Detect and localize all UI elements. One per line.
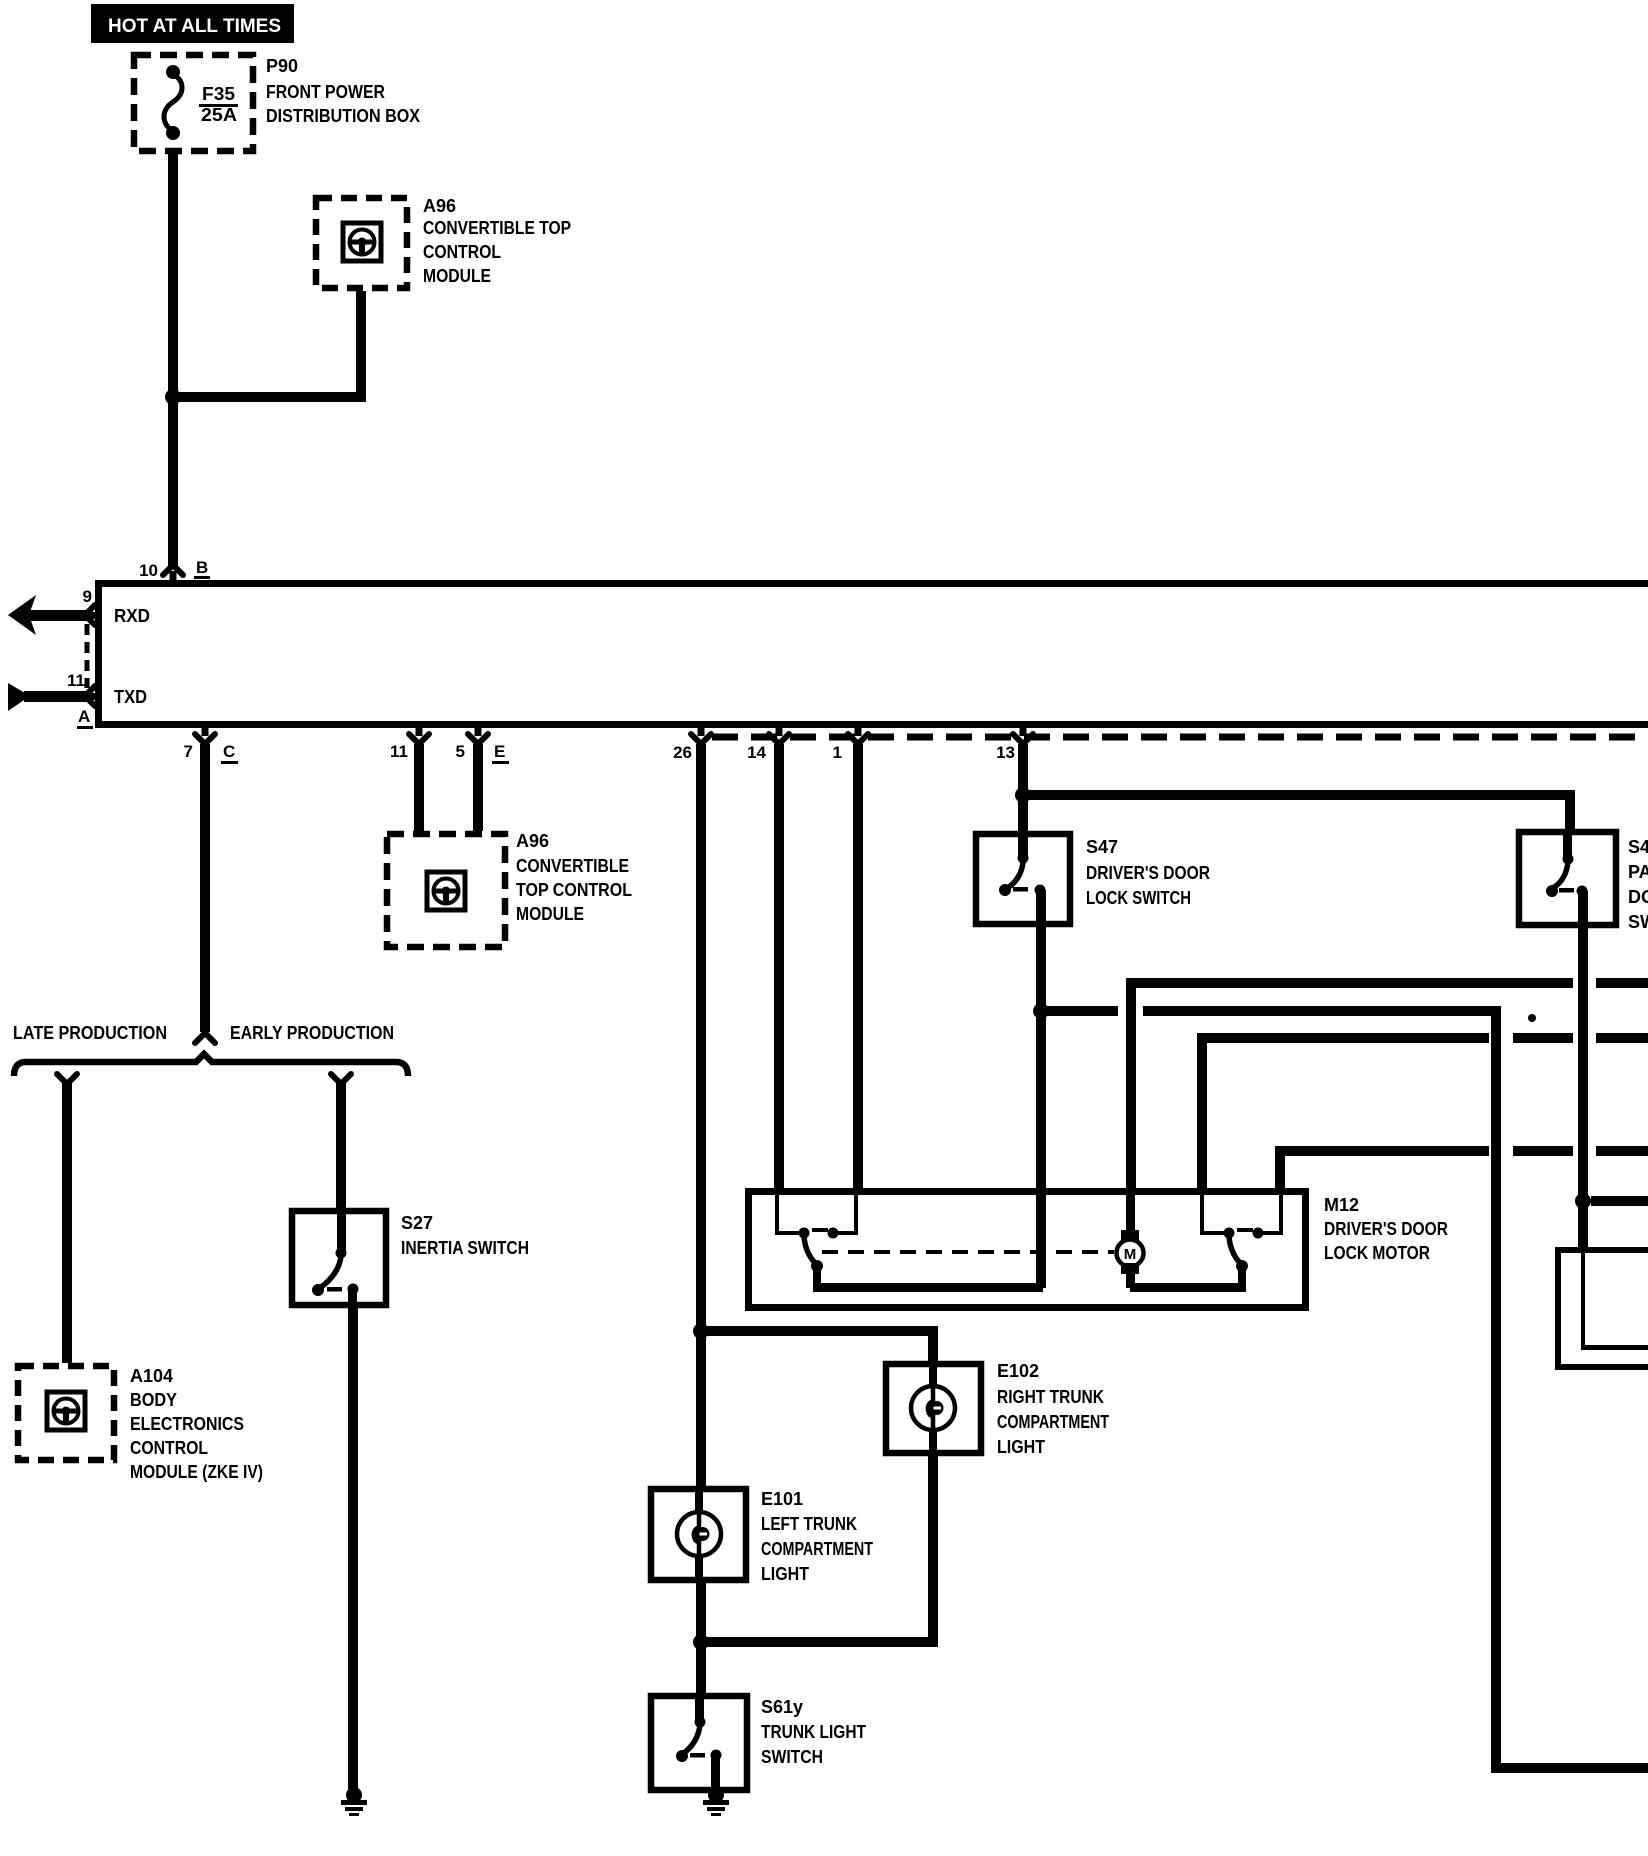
pin 10 [139,561,183,580]
wire junction to E101 [696,1331,706,1488]
label M12 DRIVER'S DOOR LOCK MOTOR [1324,1195,1448,1263]
fuse F35 25A [164,65,238,140]
svg-text:11: 11 [67,671,85,690]
label S61y TRUNK LIGHT SWITCH [761,1697,866,1767]
wire S61y to ground [711,1755,720,1793]
M12 terminal rect B [1200,1195,1283,1235]
pin 11 (lower) [390,728,429,761]
svg-text:9: 9 [83,587,92,606]
svg-text:RXD: RXD [114,606,150,626]
svg-text:TOP CONTROL: TOP CONTROL [516,880,632,900]
label LATE PRODUCTION [13,1023,167,1043]
lamp E101 left trunk compartment light box [651,1489,746,1580]
M12 left switch [799,1228,1044,1293]
svg-text:DRIVER'S DOOR: DRIVER'S DOOR [1324,1219,1448,1239]
production split brace [14,1054,408,1076]
wire pin 5 to A96 [473,744,483,831]
module A104 body electronics control module (dashed) [18,1366,114,1460]
svg-text:LEFT TRUNK: LEFT TRUNK [761,1514,857,1534]
svg-text:SWITCH: SWITCH [761,1747,823,1767]
label S47 DRIVER'S DOOR LOCK SWITCH [1086,837,1210,908]
svg-text:SWITCH: SWITCH [1628,912,1648,932]
module A96 convertible top control module (dashed, lower) [387,834,505,947]
wire pin 1 to M12 [853,744,863,1191]
icon control module A104 [47,1392,85,1430]
label P90 FRONT POWER DISTRIBUTION BOX [266,56,420,126]
label A96 CONVERTIBLE TOP CONTROL MODULE (lower) [516,831,632,924]
svg-text:E102: E102 [997,1361,1039,1381]
svg-text:MODULE: MODULE [516,904,584,924]
label S48 PASSENGER'S DOOR LOCK SWITCH (cut at edge) [1628,837,1648,932]
pin 9 RXD wire with left arrow [8,587,96,635]
wire long vertical to bottom right [1491,1006,1648,1773]
svg-text:LOCK MOTOR: LOCK MOTOR [1324,1243,1430,1263]
switch S27 inertia switch box [292,1211,386,1305]
wire from right edge into M12 rect B left [1197,1033,1648,1191]
svg-text:A: A [78,707,90,726]
label E101 LEFT TRUNK COMPARTMENT LIGHT [761,1489,873,1584]
switch S48 contacts [1546,829,1588,897]
svg-text:B: B [196,558,208,577]
svg-text:CONVERTIBLE TOP: CONVERTIBLE TOP [423,218,571,238]
wire early production branch to S27 [331,1074,351,1208]
ink speck [1528,1014,1536,1022]
M12 right switch [1130,1228,1264,1293]
svg-text:COMPARTMENT: COMPARTMENT [997,1412,1109,1432]
wire junction to right edge [1591,1196,1648,1206]
svg-text:LOCK SWITCH: LOCK SWITCH [1086,888,1191,908]
wire pin 26 down to junction [696,744,706,1334]
junction fuse wire / A96 branch [165,389,181,405]
label HOT AT ALL TIMES [91,4,294,43]
wire junction to S61y [696,1642,706,1696]
ground below S27 [341,1787,367,1816]
ground below S61y [703,1787,729,1816]
icon lamp E102 [911,1386,955,1430]
wire from right edge into M12 motor [1126,978,1648,1191]
svg-text:DOOR LOCK: DOOR LOCK [1628,887,1648,907]
pin 26 [673,728,711,762]
wire E102 down and left to junction [696,1453,938,1647]
node A [77,707,93,729]
dashed link between pin 9 and pin 11 [85,624,90,688]
icon control module A96 [343,223,381,261]
wire S48 down to M13 [1578,891,1588,1247]
junction E101 / E102 return [693,1634,709,1650]
wire S27 to ground [348,1289,358,1789]
wire branch right with crossover break [1041,1006,1501,1016]
junction pin 26 / E102 branch [693,1323,709,1339]
svg-text:1: 1 [833,743,842,762]
switch S61y trunk light switch box [651,1696,747,1790]
wire branch to A96 convertible top control module [168,291,366,402]
node C [221,742,238,764]
pin 11 TXD wire with right-pointing arrow [8,671,96,711]
svg-text:E101: E101 [761,1489,803,1509]
motor M12 driver's door lock motor box [745,1188,1309,1311]
svg-text:13: 13 [996,743,1015,762]
svg-text:RIGHT TRUNK: RIGHT TRUNK [997,1387,1104,1407]
svg-text:LATE PRODUCTION: LATE PRODUCTION [13,1023,167,1043]
svg-text:PASSENGER'S: PASSENGER'S [1628,862,1648,882]
svg-text:26: 26 [673,743,692,762]
label S27 INERTIA SWITCH [401,1213,529,1258]
svg-text:CONTROL: CONTROL [130,1438,208,1458]
switch S61y contacts [676,1693,722,1762]
svg-text:COMPARTMENT: COMPARTMENT [761,1539,873,1559]
svg-text:A104: A104 [130,1366,173,1386]
wire fuse output down to module pin 10 [168,148,178,567]
svg-text:LIGHT: LIGHT [761,1564,809,1584]
node E [492,742,509,764]
switch S47 driver's door lock switch box [976,834,1070,924]
junction S48 wire / dashed branch [1575,1193,1591,1209]
switch S27 contacts [312,1208,359,1296]
svg-text:TXD: TXD [114,687,147,707]
M12 terminal rect A [775,1195,858,1235]
svg-text:FRONT POWER: FRONT POWER [266,82,385,102]
module general module box (main horizontal band) [95,580,1648,728]
svg-text:MODULE: MODULE [423,266,491,286]
switch S48 passenger's door lock switch box (cut at edge) [1519,832,1616,925]
wire branch to S48 [1023,790,1575,832]
lamp E102 right trunk compartment light box [886,1364,981,1453]
svg-text:M: M [1124,1246,1137,1263]
wire E101 down to junction [696,1578,706,1642]
label A104 BODY ELECTRONICS CONTROL MODULE (ZKE IV) [130,1366,263,1482]
svg-text:F35: F35 [202,84,235,104]
svg-text:CONTROL: CONTROL [423,242,501,262]
wire branch to E102 [696,1326,938,1364]
signal label RXD [114,606,150,626]
svg-text:ELECTRONICS: ELECTRONICS [130,1414,244,1434]
pin 1 [833,728,868,762]
svg-text:A96: A96 [516,831,549,851]
junction S47 wire / lock motor feed branch [1033,1003,1049,1019]
svg-text:S61y: S61y [761,1697,803,1717]
label EARLY PRODUCTION [230,1023,394,1043]
svg-text:MODULE (ZKE IV): MODULE (ZKE IV) [130,1462,263,1482]
label A96 CONVERTIBLE TOP CONTROL MODULE [423,196,571,286]
node B [194,558,210,579]
wire pin 7 down to production split [195,744,215,1043]
pin 14 [747,728,789,762]
svg-text:DISTRIBUTION BOX: DISTRIBUTION BOX [266,106,420,126]
pin 5 [456,728,488,761]
svg-text:14: 14 [747,743,766,762]
svg-text:CONVERTIBLE: CONVERTIBLE [516,856,629,876]
M12 coupling dashed line [822,1250,1114,1254]
svg-text:M12: M12 [1324,1195,1359,1215]
wire S47 down into M12 [1036,890,1046,1288]
svg-text:TRUNK LIGHT: TRUNK LIGHT [761,1722,866,1742]
svg-text:E: E [494,742,505,761]
icon lamp E101 [677,1512,721,1556]
wire pin 14 to M12 [774,744,784,1191]
svg-text:HOT AT ALL TIMES: HOT AT ALL TIMES [108,16,281,37]
svg-text:7: 7 [184,742,193,761]
svg-text:EARLY PRODUCTION: EARLY PRODUCTION [230,1023,394,1043]
svg-text:10: 10 [139,561,158,580]
svg-text:A96: A96 [423,196,456,216]
svg-text:5: 5 [456,742,465,761]
svg-text:S48: S48 [1628,837,1648,857]
signal label TXD [114,687,147,707]
svg-text:P90: P90 [266,56,298,76]
svg-text:S27: S27 [401,1213,433,1233]
motor M13 passenger's door lock motor box (cut at edge) [1555,1247,1648,1370]
label E102 RIGHT TRUNK COMPARTMENT LIGHT [997,1361,1109,1457]
svg-text:11: 11 [390,742,408,761]
wire pin 11 to A96 [414,744,424,831]
pin 13 [996,728,1033,762]
dashed bus line below module [712,734,1648,741]
junction pin 13 / S48 branch [1015,787,1031,803]
svg-text:25A: 25A [201,105,237,125]
wire late production branch to A104 [57,1074,77,1363]
switch S47 contacts [999,853,1046,897]
svg-text:INERTIA SWITCH: INERTIA SWITCH [401,1238,529,1258]
fuse box P90 FRONT POWER DISTRIBUTION BOX (dashed) [134,55,253,151]
M12 motor M [1117,1191,1144,1288]
svg-text:DRIVER'S DOOR: DRIVER'S DOOR [1086,863,1210,883]
svg-text:S47: S47 [1086,837,1118,857]
icon control module A96 lower [427,872,465,910]
svg-text:BODY: BODY [130,1390,177,1410]
module A96 convertible top control module (dashed, top) [316,198,407,288]
pin 7 [184,728,215,761]
svg-text:LIGHT: LIGHT [997,1437,1045,1457]
wire from right edge into M12 rect B right [1275,1146,1648,1191]
wire pin 13 down to S47 [1018,744,1028,858]
svg-text:C: C [223,742,235,761]
